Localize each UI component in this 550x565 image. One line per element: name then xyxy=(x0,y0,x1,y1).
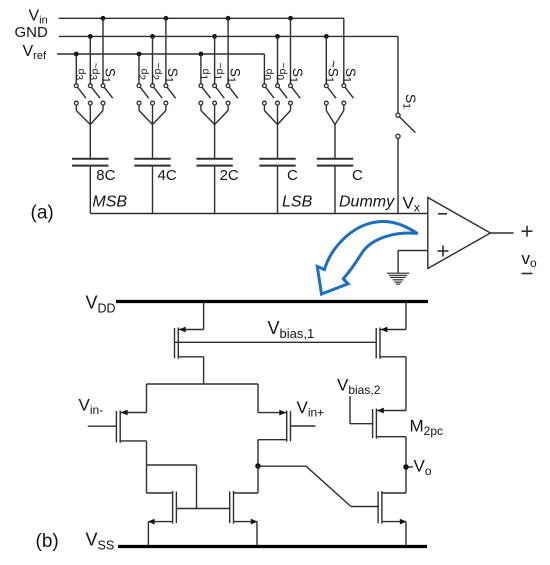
svg-text:(a): (a) xyxy=(31,203,54,224)
svg-text:8C: 8C xyxy=(96,167,115,184)
svg-text:C: C xyxy=(352,167,363,184)
svg-text:GND: GND xyxy=(15,24,49,41)
svg-text:Dummy: Dummy xyxy=(339,193,395,210)
svg-text:(b): (b) xyxy=(36,531,59,552)
svg-text:C: C xyxy=(287,167,298,184)
svg-text:LSB: LSB xyxy=(282,193,313,210)
svg-text:4C: 4C xyxy=(158,167,177,184)
svg-text:MSB: MSB xyxy=(92,193,127,210)
svg-text:2C: 2C xyxy=(220,167,239,184)
